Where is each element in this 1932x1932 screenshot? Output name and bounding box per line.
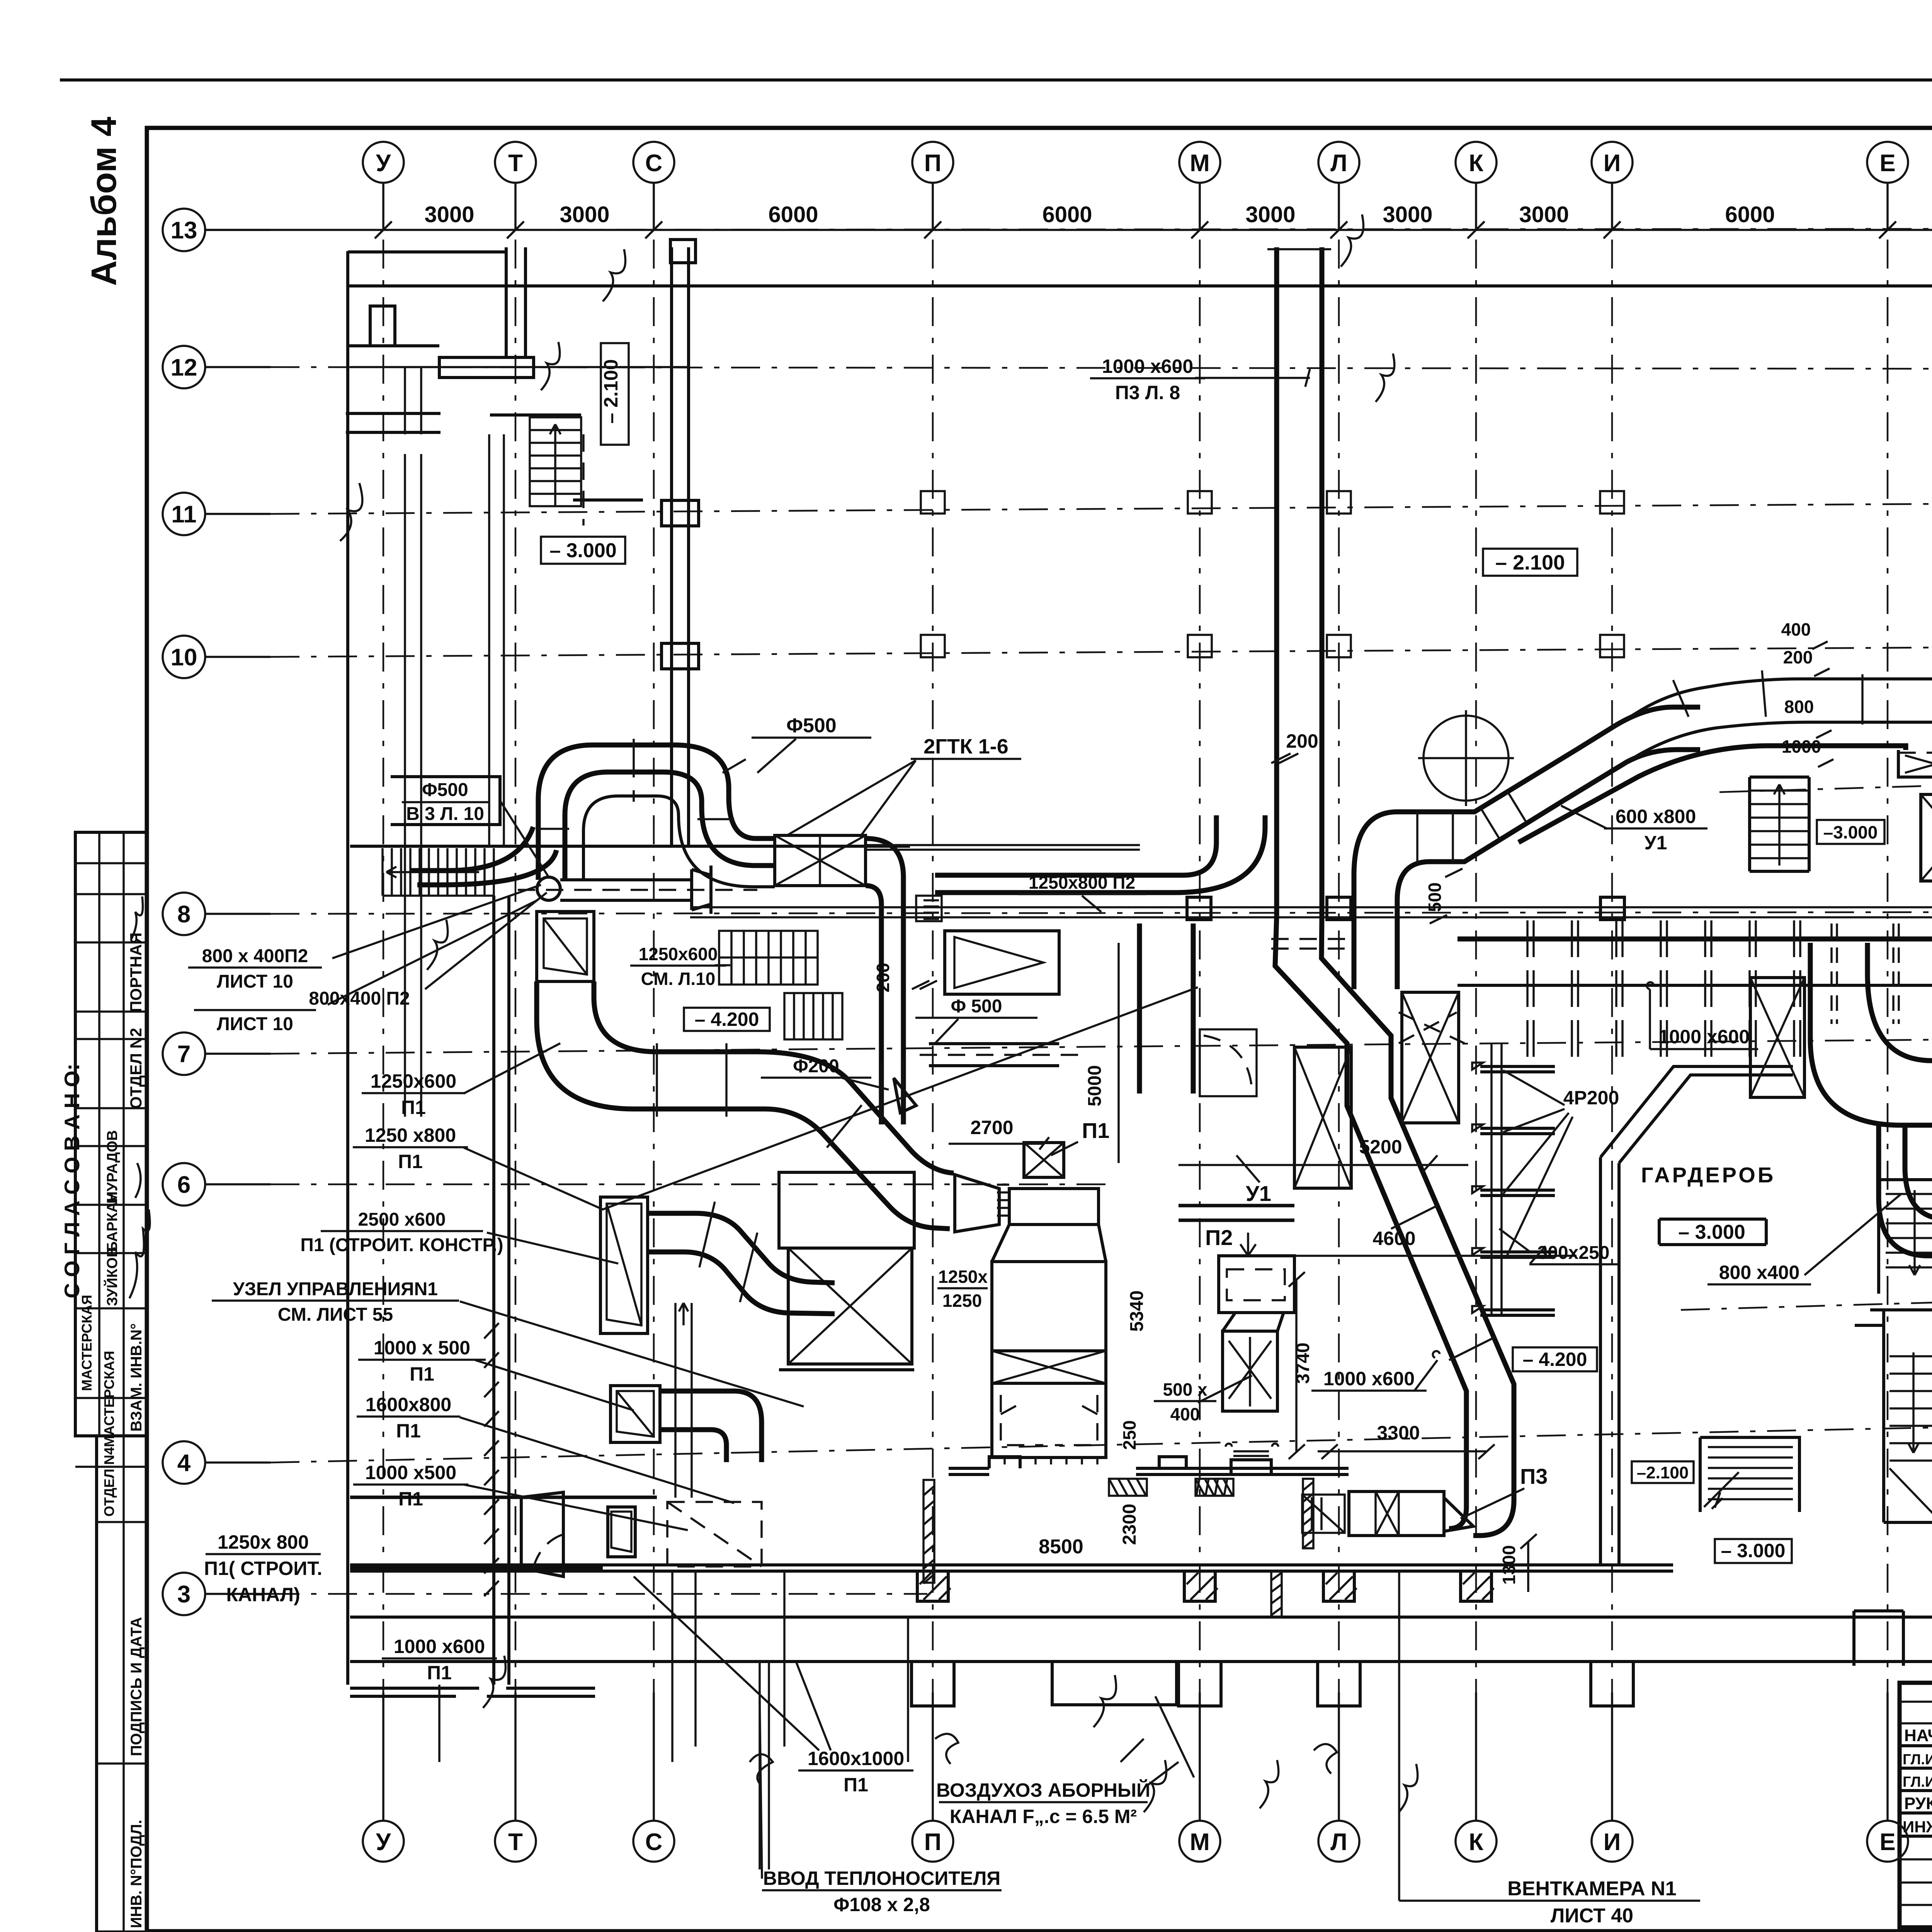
svg-text:8: 8 <box>177 901 190 928</box>
label Ф500 В3 л.10 box <box>391 777 549 877</box>
lower stairs treads <box>386 848 485 896</box>
duct 2500x600 transition west <box>600 1197 648 1333</box>
svg-text:ИНВ. N°ПОДЛ.: ИНВ. N°ПОДЛ. <box>128 1820 145 1928</box>
row8 column square Л <box>1327 897 1351 920</box>
wall under П2 unit <box>949 1468 1349 1475</box>
wardrobe stair upper treads <box>1886 1190 1932 1275</box>
svg-text:800 х 400П2: 800 х 400П2 <box>202 946 308 966</box>
svg-text:1000 х500: 1000 х500 <box>365 1462 456 1483</box>
svg-text:МАСТЕРСКАЯ: МАСТЕРСКАЯ <box>79 1295 95 1391</box>
П2 unit base <box>1231 1460 1271 1475</box>
upper left room inner lines <box>405 367 421 434</box>
north wall <box>348 284 1932 287</box>
П2 drop duct vertical fat <box>1139 923 1193 1094</box>
svg-text:400: 400 <box>1170 1404 1200 1424</box>
П1 left chamber upper body <box>779 1172 914 1248</box>
svg-text:–2.100: –2.100 <box>1637 1463 1689 1482</box>
south inner wall <box>350 1565 1673 1571</box>
svg-text:12: 12 <box>171 354 197 381</box>
row8 wall double line <box>690 907 1932 917</box>
svg-text:ЛИСТ 10: ЛИСТ 10 <box>217 971 293 992</box>
svg-text:– 4.200: – 4.200 <box>1523 1349 1587 1370</box>
grid column У axis line <box>383 240 384 1777</box>
svg-text:1250 х800: 1250 х800 <box>365 1124 456 1146</box>
svg-text:П1: П1 <box>410 1363 434 1385</box>
west annex top step <box>348 306 439 346</box>
grid row 7 axis line <box>270 1037 1932 1054</box>
bundle flange ticks <box>1673 670 1932 724</box>
svg-text:У1: У1 <box>1246 1181 1271 1206</box>
dashed duct across У1 zone <box>1271 939 1464 1043</box>
svg-text:2700: 2700 <box>970 1117 1013 1138</box>
svg-text:1250х: 1250х <box>938 1267 988 1287</box>
annex inner wall row8 top <box>350 845 910 848</box>
grid column П axis line <box>932 240 934 1777</box>
svg-text:1600х1000: 1600х1000 <box>808 1748 904 1769</box>
dashed opening row12 area <box>582 434 585 526</box>
svg-text:Φ 500: Φ 500 <box>951 996 1002 1017</box>
grid row 3 axis line <box>270 1593 927 1595</box>
sheet top border line <box>60 78 1932 82</box>
svg-text:ВЗАМ. ИНВ.N°: ВЗАМ. ИНВ.N° <box>128 1323 145 1432</box>
svg-text:250: 250 <box>1119 1420 1139 1450</box>
svg-text:М: М <box>1190 150 1210 177</box>
svg-text:М: М <box>1190 1829 1210 1855</box>
small protrusions on south wall <box>989 1457 1186 1468</box>
row 9 axis dash <box>1719 778 1932 792</box>
duct elbow after heater down <box>866 838 903 1124</box>
П3 vertical duct upper <box>1277 247 1322 916</box>
hatched wall blocks south area <box>1109 1479 1313 1617</box>
svg-text:МАСТЕРСКАЯ: МАСТЕРСКАЯ <box>101 1351 117 1447</box>
intake canal pit <box>1052 1662 1194 1777</box>
big X-box right tall <box>1750 978 1804 1097</box>
svg-text:ЛИСТ 10: ЛИСТ 10 <box>217 1014 293 1034</box>
svg-text:П2: П2 <box>1205 1225 1233 1250</box>
svg-text:П1: П1 <box>396 1420 421 1442</box>
label leaders from 800x400 labels <box>328 885 547 1005</box>
svg-text:П1: П1 <box>401 1097 426 1118</box>
duct joint ticks on П1 run <box>657 1043 862 1148</box>
svg-text:ПОДПИСЬ И ДАТА: ПОДПИСЬ И ДАТА <box>128 1617 145 1756</box>
grid row 11 axis line <box>270 502 1932 514</box>
dashed axis through П2 stub <box>518 889 757 891</box>
grid column Е axis line <box>1887 240 1889 1777</box>
svg-text:6000: 6000 <box>768 202 818 227</box>
hatch strip at П1 column <box>923 1480 934 1583</box>
west lower walls double <box>494 896 509 1685</box>
svg-text:3300: 3300 <box>1377 1422 1420 1444</box>
svg-text:– 3.000: – 3.000 <box>1678 1221 1745 1243</box>
duct 1000x600 horizontal main run <box>1458 937 1932 942</box>
svg-text:ГАРДЕРОБ: ГАРДЕРОБ <box>1641 1163 1776 1187</box>
grid column К bottom <box>1456 1692 1497 1862</box>
round duct drop circle <box>537 877 560 900</box>
svg-text:6000: 6000 <box>1725 202 1775 227</box>
canal duct 1250x800 horizontal <box>350 1497 657 1568</box>
grid column Л top <box>1318 142 1359 238</box>
grid column И top <box>1592 142 1633 238</box>
grid column С top <box>633 142 674 238</box>
grid column Т top <box>495 142 536 238</box>
label -2.100 box center <box>1483 549 1577 576</box>
svg-text:1000: 1000 <box>1782 736 1821 757</box>
svg-text:11: 11 <box>171 501 197 528</box>
diagonal duct joint ticks <box>1391 1206 1495 1360</box>
corridor wall 2 <box>489 434 504 846</box>
grid column Т bottom <box>495 1692 536 1862</box>
wardrobe comb partitions top <box>1527 920 1800 1061</box>
level -3.000 box upper <box>541 537 625 564</box>
svg-text:П: П <box>924 150 942 177</box>
zigzag break on leader <box>427 920 448 970</box>
south inner wall pilasters <box>917 1571 948 1601</box>
south outer foundation wall <box>350 1617 1932 1662</box>
П1 unit flex strip <box>997 1185 1009 1216</box>
wall segment under T column <box>439 357 534 378</box>
svg-text:1000 х600: 1000 х600 <box>1658 1026 1750 1048</box>
grid row 4 axis line <box>270 1422 1932 1463</box>
grid column П top <box>912 142 953 238</box>
svg-text:800 х400: 800 х400 <box>1719 1262 1800 1283</box>
П2 chamber box <box>1219 1233 1294 1313</box>
level -2.100 box east <box>1632 1461 1694 1483</box>
lower stairs band walls <box>383 848 494 896</box>
T column wall stub <box>506 247 526 357</box>
svg-text:3000: 3000 <box>424 202 474 227</box>
S-duct from west 2500x600 unit <box>648 1213 835 1314</box>
svg-text:КАНАЛ F„.с = 6.5 М²: КАНАЛ F„.с = 6.5 М² <box>950 1806 1137 1827</box>
svg-text:Е: Е <box>1879 150 1895 177</box>
svg-text:Е: Е <box>1879 1829 1895 1855</box>
svg-text:800: 800 <box>1784 697 1814 717</box>
level -2.100 rotated box <box>600 343 629 445</box>
level -3.000 box NE <box>1817 820 1884 844</box>
svg-text:У: У <box>376 150 391 177</box>
grid row 6 left <box>163 1163 270 1206</box>
svg-text:П1 (СТРОИТ. КОНСТР.): П1 (СТРОИТ. КОНСТР.) <box>300 1235 503 1255</box>
svg-text:1250х800 П2: 1250х800 П2 <box>1029 872 1135 893</box>
grid column Е bottom <box>1867 1692 1908 1862</box>
svg-text:8500: 8500 <box>1039 1536 1083 1558</box>
svg-text:Л: Л <box>1330 150 1347 177</box>
П1 X-band <box>992 1351 1106 1383</box>
svg-text:1250х 800: 1250х 800 <box>218 1531 309 1553</box>
duct Ф500 inner small arc <box>583 796 775 887</box>
svg-text:С: С <box>645 1829 663 1855</box>
grid column М top <box>1179 142 1220 238</box>
level -4.200 box east <box>1513 1347 1597 1371</box>
svg-text:И: И <box>1604 150 1621 177</box>
grid row 3 left <box>163 1573 270 1615</box>
lower stairwell walls <box>1884 1325 1932 1522</box>
canal transition trapezoid <box>521 1492 563 1577</box>
svg-text:К: К <box>1469 1829 1483 1855</box>
П2 unit body <box>1223 1331 1277 1411</box>
annex east wall <box>672 247 689 846</box>
П3 duct jog through band <box>1275 916 1391 1094</box>
П1 lower dashed section <box>992 1383 1106 1464</box>
svg-text:ЛИСТ 40: ЛИСТ 40 <box>1551 1905 1633 1927</box>
svg-text:400: 400 <box>1781 619 1811 639</box>
У1 diagonal segment joints <box>1417 791 1526 864</box>
svg-text:1250: 1250 <box>942 1291 982 1311</box>
grid column К axis line <box>1475 240 1477 1777</box>
svg-text:ОТДЕЛ N4: ОТДЕЛ N4 <box>101 1447 117 1517</box>
grid column С bottom <box>633 1692 674 1862</box>
svg-text:200: 200 <box>1286 730 1318 752</box>
title block outline <box>1900 1683 1932 1927</box>
svg-text:1000 х600: 1000 х600 <box>1323 1368 1415 1389</box>
svg-text:ГЛ.ИНЖ.ПР.: ГЛ.ИНЖ.ПР. <box>1903 1774 1932 1790</box>
svg-text:П1: П1 <box>844 1774 868 1796</box>
svg-text:В 3 Л. 10: В 3 Л. 10 <box>406 804 484 824</box>
duct flange ticks <box>538 739 746 829</box>
svg-text:ВЕНТКАМЕРА N1: ВЕНТКАМЕРА N1 <box>1507 1878 1676 1900</box>
NE stairwell near Д <box>1750 777 1809 871</box>
П3 unit cone <box>1444 1498 1473 1531</box>
svg-text:5340: 5340 <box>1127 1291 1147 1332</box>
П3 unit body <box>1349 1492 1444 1536</box>
svg-text:П: П <box>924 1829 942 1855</box>
svg-text:6: 6 <box>177 1172 190 1198</box>
personnel table rows <box>1900 1701 1932 1703</box>
grid row 4 left <box>163 1441 270 1484</box>
grid row 8 axis line <box>270 912 1932 914</box>
svg-text:П1: П1 <box>398 1151 423 1172</box>
break mark near С top <box>541 249 625 390</box>
grid column У bottom <box>363 1692 404 1862</box>
big X-box column 5 area <box>1294 1047 1351 1188</box>
heat pipe entry lines <box>760 1662 769 1869</box>
hatched channel strip <box>484 1323 499 1596</box>
break marks bottom row3 <box>1144 1760 1418 1812</box>
svg-text:П1: П1 <box>1082 1118 1109 1143</box>
svg-text:К: К <box>1469 150 1483 177</box>
bundle line 400 outer arc <box>1577 679 1932 750</box>
П1 big chamber <box>992 1262 1106 1351</box>
stamp signatures column squiggles <box>129 1163 150 1298</box>
svg-text:5200: 5200 <box>1359 1136 1402 1158</box>
hanger ticks on run <box>1832 923 1932 1024</box>
grid row 13 left <box>163 209 270 251</box>
svg-text:ОТДЕЛ N2: ОТДЕЛ N2 <box>127 1028 145 1109</box>
upper stair landing wall <box>346 413 643 500</box>
svg-text:4600: 4600 <box>1372 1228 1415 1249</box>
svg-text:И: И <box>1604 1829 1621 1855</box>
duct 800x400 П2 to west wall <box>410 827 556 885</box>
svg-text:ПОРТНАЯ: ПОРТНАЯ <box>127 932 145 1012</box>
level -3.000 box wardrobe lower <box>1715 1539 1792 1563</box>
svg-text:3000: 3000 <box>1245 202 1295 227</box>
row 5 axis dash <box>1681 1295 1932 1310</box>
svg-text:1300: 1300 <box>1499 1545 1519 1585</box>
S-duct to upper grille <box>1810 943 1932 1125</box>
П2 fat duct run and elbow up <box>935 875 1183 893</box>
svg-text:Φ500: Φ500 <box>422 780 468 800</box>
stamp strip column lines <box>98 832 100 1436</box>
ГАРДЕРОБ room outline <box>1600 1066 1793 1391</box>
У1 riser duct <box>1354 750 1577 989</box>
П2 unit transition <box>1223 1313 1284 1331</box>
grid column Л axis line <box>1338 240 1340 1777</box>
П1 unit body <box>1009 1189 1099 1225</box>
svg-text:Т: Т <box>508 150 523 177</box>
svg-text:1000 х 500: 1000 х 500 <box>374 1337 470 1359</box>
leader for mid 800x400 label <box>1804 1194 1901 1275</box>
southwest bottom wall <box>350 1688 595 1696</box>
grid row 10 left <box>163 636 270 678</box>
annex north edge <box>348 250 506 253</box>
wall between fan room and П2 <box>1179 1206 1294 1220</box>
lower stair treads <box>1889 1352 1932 1519</box>
svg-text:– 3.000: – 3.000 <box>1721 1540 1786 1561</box>
west wall break mark <box>340 483 362 541</box>
grid column М bottom <box>1179 1692 1220 1862</box>
wardrobe inner stair walls <box>1879 1180 1932 1294</box>
grid row 7 left <box>163 1032 270 1075</box>
svg-text:НАЧ.ОТД.: НАЧ.ОТД. <box>1904 1726 1932 1745</box>
south wall segment stairwell bottom <box>1854 1611 1932 1666</box>
svg-text:2500 х600: 2500 х600 <box>358 1209 446 1230</box>
svg-text:600 х800: 600 х800 <box>1616 806 1696 827</box>
bundle line 800 thick <box>1519 746 1906 842</box>
svg-text:Φ200: Φ200 <box>793 1056 839 1077</box>
grille box 1000x500 <box>611 1386 660 1442</box>
dashed row 12 wall hints upper left <box>350 366 688 368</box>
duct Ф500 loop inner <box>565 772 775 880</box>
row8 column square М <box>1187 897 1211 920</box>
grid row 13 axis line <box>270 229 1932 230</box>
Ф200 small duct from П2 heater down <box>881 1059 903 1124</box>
svg-text:У1: У1 <box>1645 832 1667 854</box>
annex east wall pilaster row 10 <box>662 643 699 669</box>
level -3.000 box wardrobe <box>1659 1219 1766 1245</box>
svg-text:УЗЕЛ УПРАВЛЕНИЯN1: УЗЕЛ УПРАВЛЕНИЯN1 <box>233 1279 438 1299</box>
left small stair comb near row 4 <box>1700 1437 1799 1512</box>
svg-text:800х400 П2: 800х400 П2 <box>309 988 410 1009</box>
tall X-box right of П3 <box>1402 992 1459 1123</box>
svg-text:Φ108 х 2,8: Φ108 х 2,8 <box>833 1894 930 1915</box>
П1 intake duct down and elbow east <box>537 981 954 1229</box>
svg-text:Альбом 4: Альбом 4 <box>84 117 124 286</box>
svg-text:3: 3 <box>177 1581 190 1608</box>
corridor wall lines <box>405 454 421 1117</box>
svg-text:7: 7 <box>177 1041 190 1068</box>
grid column Т axis line <box>515 240 517 1777</box>
big round opening <box>1418 710 1514 806</box>
svg-text:ГЛ.ИНЖ.ОТД.: ГЛ.ИНЖ.ОТД. <box>1903 1752 1932 1768</box>
svg-text:Φ500: Φ500 <box>786 714 836 737</box>
break marks on south wall <box>750 1734 1337 1785</box>
dashed elbow hint <box>533 1534 564 1568</box>
stamp signature squiggle <box>131 896 143 939</box>
svg-text:– 4.200: – 4.200 <box>695 1009 759 1030</box>
svg-text:13: 13 <box>171 217 197 244</box>
grid row 12 left <box>163 346 270 388</box>
west wall <box>346 251 349 1685</box>
grid column М axis line <box>1199 240 1201 1777</box>
heater 2ГТК X-box <box>775 835 866 886</box>
П3 side boxes <box>1302 1495 1345 1533</box>
svg-text:200: 200 <box>873 963 893 993</box>
svg-text:П3 Л. 8: П3 Л. 8 <box>1115 382 1180 403</box>
NE lift shaft X-box <box>1921 794 1932 881</box>
second S-duct down <box>1879 1125 1932 1267</box>
svg-text:–3.000: –3.000 <box>1823 822 1878 842</box>
grid row 11 left <box>163 493 270 535</box>
grid column У top <box>363 142 404 238</box>
duct 800x400 П2 stub right of circle <box>560 866 711 914</box>
svg-text:1000 х600: 1000 х600 <box>1102 355 1193 377</box>
svg-text:5000: 5000 <box>1085 1065 1105 1107</box>
fan room left X-box big <box>788 1248 912 1364</box>
grid column С axis line <box>653 240 655 1777</box>
fan П1 X-box outlet <box>1024 1143 1064 1177</box>
svg-text:ВВОД ТЕПЛОНОСИТЕЛЯ: ВВОД ТЕПЛОНОСИТЕЛЯ <box>763 1867 1000 1889</box>
top dimension line row 13 <box>204 229 1932 231</box>
thin vertical duct 1000x500 <box>675 1303 692 1498</box>
1000x600 diagonal duct <box>1347 1094 1466 1529</box>
svg-text:2300: 2300 <box>1119 1504 1140 1545</box>
grid row 10 axis line <box>270 646 1932 657</box>
upper stairs <box>530 417 581 506</box>
svg-text:4Р200: 4Р200 <box>1563 1087 1619 1109</box>
svg-text:3000: 3000 <box>1519 202 1569 227</box>
stair lower near С <box>784 993 842 1039</box>
svg-text:500: 500 <box>1425 883 1445 912</box>
canal dashed box <box>667 1502 762 1566</box>
grid column И axis line <box>1611 240 1613 1777</box>
svg-text:Л: Л <box>1330 1829 1347 1855</box>
svg-text:СМ. Л.10: СМ. Л.10 <box>641 969 716 989</box>
П2 unit flex bottom <box>1226 1444 1278 1456</box>
bundle line 200 <box>1563 722 1932 801</box>
П1 transition to big box <box>992 1225 1106 1262</box>
stamp strip bottom section <box>97 1436 147 1932</box>
grid column К top <box>1456 142 1497 238</box>
У1 diagonal duct to circle area <box>1577 707 1700 750</box>
grid column Е top <box>1867 142 1908 238</box>
foundation piers at columns <box>912 1662 1633 1706</box>
stair grid near С row8 <box>719 931 818 985</box>
grid row 6 axis line <box>270 1184 1113 1185</box>
svg-text:200: 200 <box>1783 647 1813 667</box>
duct 1600x800 elbow <box>660 1391 762 1462</box>
label -4.200 box west <box>684 1008 770 1031</box>
svg-text:П1: П1 <box>398 1488 423 1510</box>
svg-text:– 2.100: – 2.100 <box>1495 551 1565 574</box>
П2 elbow curving up to П3 line <box>1175 815 1265 893</box>
П1 supply unit cone <box>955 1175 999 1232</box>
П3 duct cap top <box>1267 248 1331 250</box>
svg-text:ВОЗДУХОЗ АБОРНЫЙ: ВОЗДУХОЗ АБОРНЫЙ <box>936 1779 1150 1801</box>
П2 duct thin pair above row8 <box>866 845 1140 850</box>
row8 column square И <box>1600 897 1624 920</box>
svg-text:С: С <box>645 150 663 177</box>
svg-text:2ГТК 1-6: 2ГТК 1-6 <box>923 735 1009 758</box>
grid column П bottom <box>912 1692 953 1862</box>
annex east wall pilaster row 11 <box>662 500 699 526</box>
svg-text:1250х600: 1250х600 <box>371 1070 456 1092</box>
svg-text:1600х800: 1600х800 <box>366 1394 451 1415</box>
svg-text:КАНАЛ): КАНАЛ) <box>226 1584 300 1605</box>
svg-text:1000 х600: 1000 х600 <box>394 1636 485 1657</box>
svg-text:1250х600: 1250х600 <box>639 944 718 964</box>
svg-text:РУК.ГР.: РУК.ГР. <box>1904 1794 1932 1813</box>
svg-text:СМ. ЛИСТ 55: СМ. ЛИСТ 55 <box>278 1304 393 1325</box>
damper box below П2 drop <box>1200 1029 1257 1096</box>
